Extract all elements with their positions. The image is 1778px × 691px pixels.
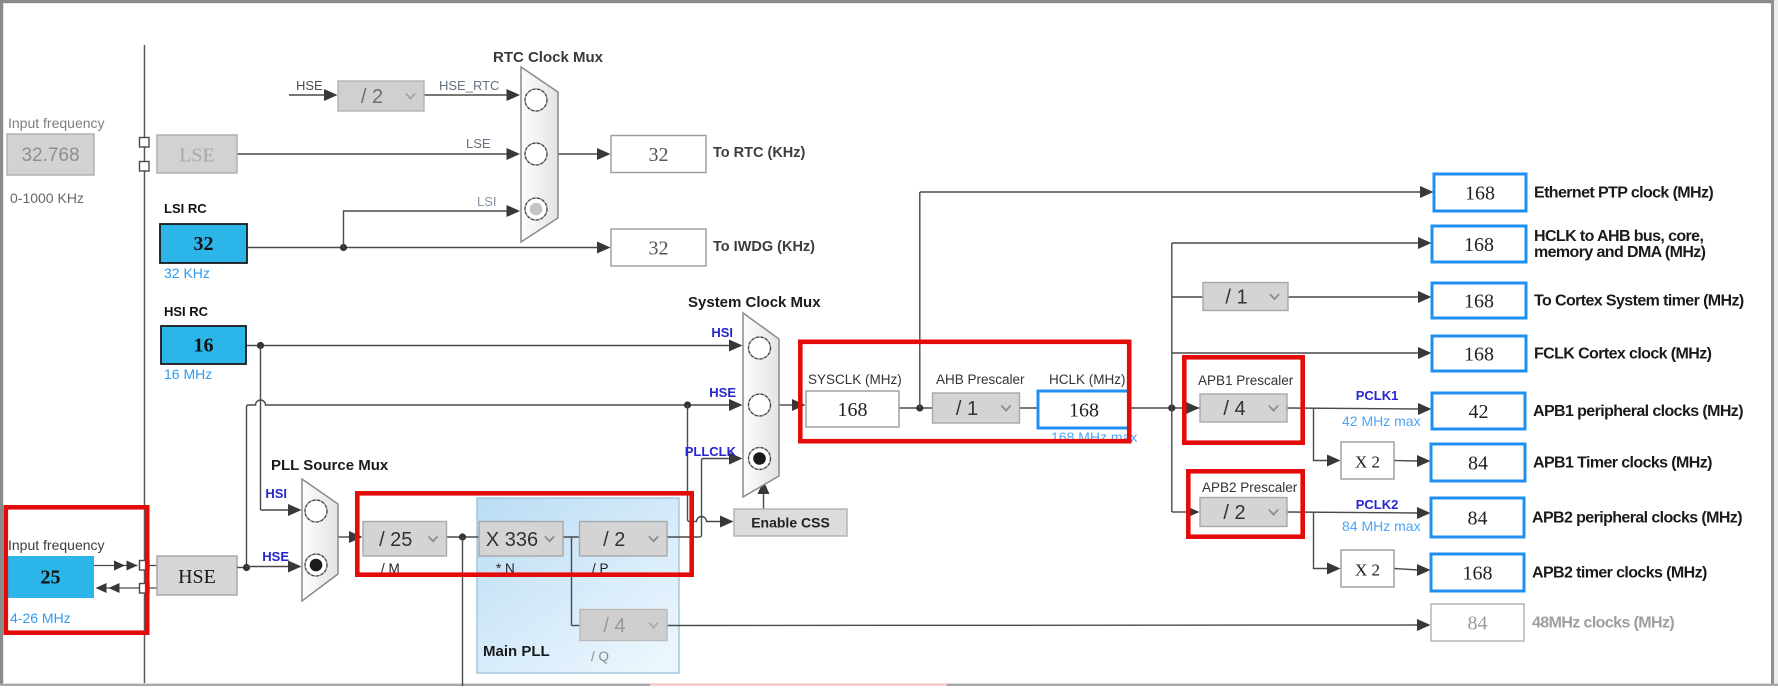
svg-text:/ 4: / 4 xyxy=(1223,398,1245,420)
svg-text:168: 168 xyxy=(1069,400,1099,422)
svg-text:AHB Prescaler: AHB Prescaler xyxy=(936,372,1025,387)
svg-text:HSE: HSE xyxy=(262,549,289,564)
svg-text:HSE_RTC: HSE_RTC xyxy=(439,78,499,93)
svg-text:HCLK to AHB bus, core,: HCLK to AHB bus, core, xyxy=(1534,228,1703,245)
svg-text:Input frequency: Input frequency xyxy=(8,115,105,131)
svg-text:FCLK Cortex clock (MHz): FCLK Cortex clock (MHz) xyxy=(1534,346,1712,363)
svg-text:HSI: HSI xyxy=(711,325,733,340)
svg-text:PLLCLK: PLLCLK xyxy=(685,444,737,459)
svg-text:/ 1: / 1 xyxy=(956,398,978,420)
svg-text:32 KHz: 32 KHz xyxy=(164,265,210,281)
svg-text:42 MHz max: 42 MHz max xyxy=(1342,413,1421,429)
svg-text:168: 168 xyxy=(1463,563,1493,585)
svg-text:32: 32 xyxy=(649,238,669,260)
svg-text:To IWDG (KHz): To IWDG (KHz) xyxy=(713,239,815,255)
svg-text:HSI RC: HSI RC xyxy=(164,304,209,319)
svg-text:/ 2: / 2 xyxy=(1223,502,1245,524)
svg-text:32: 32 xyxy=(649,144,669,166)
svg-text:LSE: LSE xyxy=(466,136,491,151)
svg-text:0-1000 KHz: 0-1000 KHz xyxy=(10,190,84,206)
svg-text:168: 168 xyxy=(1464,344,1494,366)
svg-text:/ Q: / Q xyxy=(591,649,609,664)
svg-text:PCLK1: PCLK1 xyxy=(1356,388,1399,403)
svg-text:48MHz clocks (MHz): 48MHz clocks (MHz) xyxy=(1532,615,1674,632)
svg-text:84 MHz max: 84 MHz max xyxy=(1342,518,1421,534)
svg-text:To Cortex System timer (MHz): To Cortex System timer (MHz) xyxy=(1534,293,1744,310)
svg-text:168: 168 xyxy=(838,399,868,421)
svg-text:168: 168 xyxy=(1464,291,1494,313)
svg-text:APB1 peripheral clocks (MHz): APB1 peripheral clocks (MHz) xyxy=(1533,403,1743,420)
svg-text:APB1 Timer clocks (MHz): APB1 Timer clocks (MHz) xyxy=(1533,455,1712,472)
svg-text:4-26 MHz: 4-26 MHz xyxy=(10,610,71,626)
svg-text:HSE: HSE xyxy=(296,78,323,93)
svg-text:RTC Clock Mux: RTC Clock Mux xyxy=(493,49,604,66)
svg-text:84: 84 xyxy=(1468,453,1488,475)
svg-text:System Clock Mux: System Clock Mux xyxy=(688,294,821,311)
svg-text:42: 42 xyxy=(1469,401,1489,423)
svg-text:APB2 Prescaler: APB2 Prescaler xyxy=(1202,480,1298,495)
svg-text:/ 25: / 25 xyxy=(379,529,412,551)
svg-text:32.768: 32.768 xyxy=(21,145,79,166)
svg-text:PLL Source Mux: PLL Source Mux xyxy=(271,457,389,474)
svg-text:APB2 peripheral clocks (MHz): APB2 peripheral clocks (MHz) xyxy=(1532,510,1742,527)
svg-text:32: 32 xyxy=(194,233,214,255)
svg-text:X 336: X 336 xyxy=(486,529,538,551)
svg-text:X 2: X 2 xyxy=(1355,561,1380,580)
svg-text:PCLK2: PCLK2 xyxy=(1356,497,1399,512)
svg-text:LSI: LSI xyxy=(477,194,497,209)
svg-text:HCLK (MHz): HCLK (MHz) xyxy=(1049,372,1126,387)
svg-text:LSE: LSE xyxy=(179,145,215,167)
svg-text:Enable CSS: Enable CSS xyxy=(751,515,830,531)
svg-text:/ 2: / 2 xyxy=(603,529,625,551)
svg-text:APB1 Prescaler: APB1 Prescaler xyxy=(1198,373,1294,388)
svg-text:HSE: HSE xyxy=(178,566,216,588)
svg-text:HSI: HSI xyxy=(265,486,287,501)
svg-text:16 MHz: 16 MHz xyxy=(164,366,212,382)
svg-text:To RTC (KHz): To RTC (KHz) xyxy=(713,145,806,161)
svg-text:X 2: X 2 xyxy=(1355,453,1380,472)
svg-text:25: 25 xyxy=(41,567,61,589)
svg-text:APB2 timer clocks (MHz): APB2 timer clocks (MHz) xyxy=(1532,565,1707,582)
svg-text:168: 168 xyxy=(1465,183,1495,205)
svg-text:168: 168 xyxy=(1464,234,1494,256)
svg-text:memory and DMA (MHz): memory and DMA (MHz) xyxy=(1534,244,1706,261)
svg-text:LSI RC: LSI RC xyxy=(164,201,207,216)
svg-text:/ 2: / 2 xyxy=(361,86,383,108)
svg-text:/ 1: / 1 xyxy=(1225,287,1247,309)
svg-text:Ethernet PTP clock (MHz): Ethernet PTP clock (MHz) xyxy=(1534,185,1713,202)
svg-text:84: 84 xyxy=(1468,508,1488,530)
svg-text:SYSCLK (MHz): SYSCLK (MHz) xyxy=(808,372,902,387)
svg-text:84: 84 xyxy=(1468,613,1488,635)
svg-text:HSE: HSE xyxy=(709,385,736,400)
svg-text:16: 16 xyxy=(194,335,214,357)
svg-text:/ 4: / 4 xyxy=(603,615,625,637)
svg-text:Input frequency: Input frequency xyxy=(8,537,105,553)
svg-text:Main PLL: Main PLL xyxy=(483,643,550,660)
